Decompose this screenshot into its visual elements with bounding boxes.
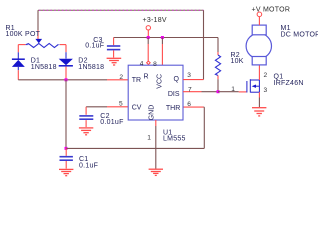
svg-text:3: 3	[264, 87, 268, 94]
diode D1 (cathode up)	[12, 52, 25, 80]
svg-text:DIS: DIS	[168, 91, 180, 98]
label M1	[281, 25, 320, 38]
svg-text:100K POT: 100K POT	[6, 31, 41, 38]
wire VCC rail	[114, 38, 218, 46]
svg-text:6: 6	[187, 101, 191, 108]
wire source to ground	[258, 92, 260, 107]
resistor R2	[215, 38, 220, 92]
power port +3-18V	[143, 17, 167, 38]
wire drain to motor	[258, 65, 260, 80]
wire TR rail (diodes to pin 2)	[18, 79, 128, 81]
svg-text:THR: THR	[166, 105, 180, 112]
wire gate	[218, 91, 246, 93]
label D1	[31, 57, 57, 71]
label U1 LM555	[163, 129, 186, 142]
node junction R2/DIS/gate	[217, 90, 220, 93]
svg-text:0.1uF: 0.1uF	[79, 162, 98, 169]
ground pin 1	[149, 169, 163, 175]
svg-text:IRFZ46N: IRFZ46N	[274, 80, 304, 87]
svg-text:1: 1	[147, 134, 151, 141]
power port +V MOTOR	[252, 6, 291, 25]
svg-text:1N5818: 1N5818	[31, 64, 57, 71]
node junction D2/TR	[65, 78, 68, 81]
label C3	[85, 37, 104, 49]
ground below C2	[79, 128, 93, 135]
ground below Q1	[252, 108, 266, 116]
wire pot right to D2	[65, 45, 67, 53]
transistor Q1 IRFZ46N	[247, 79, 260, 92]
ground below C1	[59, 169, 73, 175]
wire pot left to D1	[17, 45, 19, 53]
svg-text:VCC: VCC	[156, 74, 163, 89]
capacitor C1	[60, 148, 73, 168]
label C2	[100, 113, 123, 126]
capacitor C3	[107, 46, 120, 58]
wire CV (pin5)	[86, 107, 128, 115]
capacitor C2	[79, 116, 93, 127]
node junction C1	[65, 147, 68, 150]
node junction pin4/VCC	[147, 36, 150, 39]
svg-text:CV: CV	[132, 105, 142, 112]
wire vertical pot wiper	[37, 10, 39, 39]
node junction pin8/VCC	[161, 36, 164, 39]
label R1	[6, 25, 41, 38]
svg-text:R: R	[144, 74, 149, 81]
svg-text:+V MOTOR: +V MOTOR	[252, 6, 291, 13]
label C1	[79, 156, 98, 169]
svg-text:LM555: LM555	[163, 136, 186, 143]
ground below C3	[107, 58, 122, 65]
svg-text:10K: 10K	[231, 58, 244, 65]
wire pin 8	[161, 38, 163, 66]
svg-text:1: 1	[231, 86, 235, 93]
svg-text:3: 3	[187, 72, 191, 79]
svg-text:0.1uF: 0.1uF	[85, 42, 104, 49]
wire bottom rail (THR loop)	[66, 107, 204, 148]
label R2	[231, 52, 244, 65]
svg-text:2: 2	[264, 72, 268, 79]
op-amp U1 LM555 box	[128, 65, 183, 120]
label Q1	[274, 74, 304, 87]
wire Q (pin3) to vertical	[183, 79, 204, 81]
wire top rail selected (pin3 output to pot wiper)	[38, 9, 204, 11]
wire pin 4	[147, 38, 149, 62]
svg-text:0.01uF: 0.01uF	[100, 119, 123, 126]
svg-text:TR: TR	[132, 77, 141, 84]
svg-text:Q: Q	[174, 76, 180, 83]
svg-text:7: 7	[188, 86, 192, 93]
wire vertical output pin3	[203, 10, 205, 79]
svg-text:+3-18V: +3-18V	[143, 17, 167, 24]
svg-text:4: 4	[140, 60, 144, 67]
svg-text:DC MOTOR: DC MOTOR	[281, 31, 319, 38]
svg-text:8: 8	[153, 61, 157, 68]
svg-text:5: 5	[119, 101, 123, 108]
svg-text:GND: GND	[149, 105, 156, 121]
wire DIS (pin7)	[183, 91, 218, 93]
label D2	[78, 57, 104, 71]
potentiometer R1	[18, 39, 66, 48]
diode D2 (cathode down)	[59, 52, 73, 80]
wire pin 1 to ground	[155, 120, 157, 169]
svg-text:1N5818: 1N5818	[78, 64, 104, 71]
svg-text:2: 2	[119, 74, 123, 81]
reset diamond pin 4	[147, 61, 151, 64]
motor M1	[246, 25, 271, 65]
wire down to C1	[65, 80, 67, 149]
